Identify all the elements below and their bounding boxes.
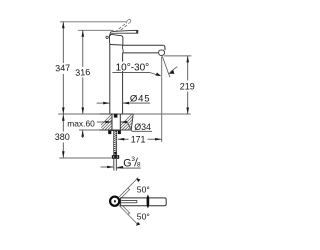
svg-text:Ø45: Ø45: [130, 93, 151, 104]
svg-text:380: 380: [55, 132, 70, 142]
svg-text:3: 3: [131, 156, 135, 163]
svg-text:10°-30°: 10°-30°: [116, 62, 150, 73]
svg-text:316: 316: [75, 67, 91, 78]
svg-text:171: 171: [131, 135, 146, 145]
svg-text:G: G: [123, 157, 131, 169]
svg-text:8: 8: [137, 162, 141, 169]
svg-text:347: 347: [55, 63, 71, 74]
svg-text:50°: 50°: [137, 212, 150, 222]
svg-text:Ø34: Ø34: [134, 122, 151, 132]
svg-text:max.60: max.60: [67, 118, 95, 128]
svg-text:219: 219: [180, 81, 195, 91]
svg-text:50°: 50°: [137, 184, 150, 194]
